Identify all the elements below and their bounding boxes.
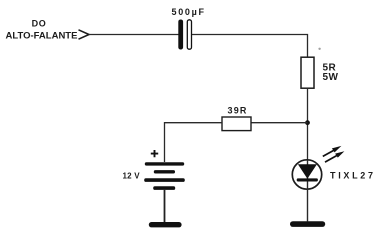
svg-text:ALTO-FALANTE: ALTO-FALANTE bbox=[6, 31, 78, 42]
LED D1 cathode bar bbox=[297, 178, 318, 181]
svg-text:39R: 39R bbox=[228, 106, 248, 116]
junction node bbox=[305, 120, 310, 125]
wire R2 to battery bbox=[165, 123, 223, 162]
LED emission arrow 2 bbox=[325, 151, 344, 162]
svg-text:5W: 5W bbox=[323, 72, 339, 83]
svg-text:500µF: 500µF bbox=[172, 7, 206, 17]
resistor R2 box bbox=[222, 117, 251, 131]
wire through LED to ground bbox=[307, 160, 309, 221]
LED emission arrow 1 bbox=[323, 146, 342, 157]
input arrow bbox=[79, 30, 90, 39]
battery B1 plates bbox=[145, 162, 184, 165]
battery B1 plus sign bbox=[151, 150, 158, 157]
svg-text:DO: DO bbox=[32, 19, 47, 29]
wire capacitor to top-right corner bbox=[192, 35, 308, 58]
wire battery to ground bbox=[164, 190, 166, 223]
LED D1 triangle bbox=[298, 164, 317, 179]
resistor R1 box bbox=[301, 57, 314, 88]
noise dot bbox=[318, 48, 320, 50]
capacitor C1 plates bbox=[178, 20, 183, 50]
wire junction to R2 bbox=[251, 122, 308, 124]
ground (LED) bbox=[290, 221, 325, 227]
svg-text:TIXL27: TIXL27 bbox=[330, 170, 376, 180]
LED D1 circle bbox=[292, 160, 321, 189]
svg-text:12 V: 12 V bbox=[123, 171, 141, 180]
ground (battery) bbox=[149, 222, 182, 227]
wire input to capacitor bbox=[89, 34, 179, 36]
wire R1 to LED top bbox=[307, 88, 309, 160]
